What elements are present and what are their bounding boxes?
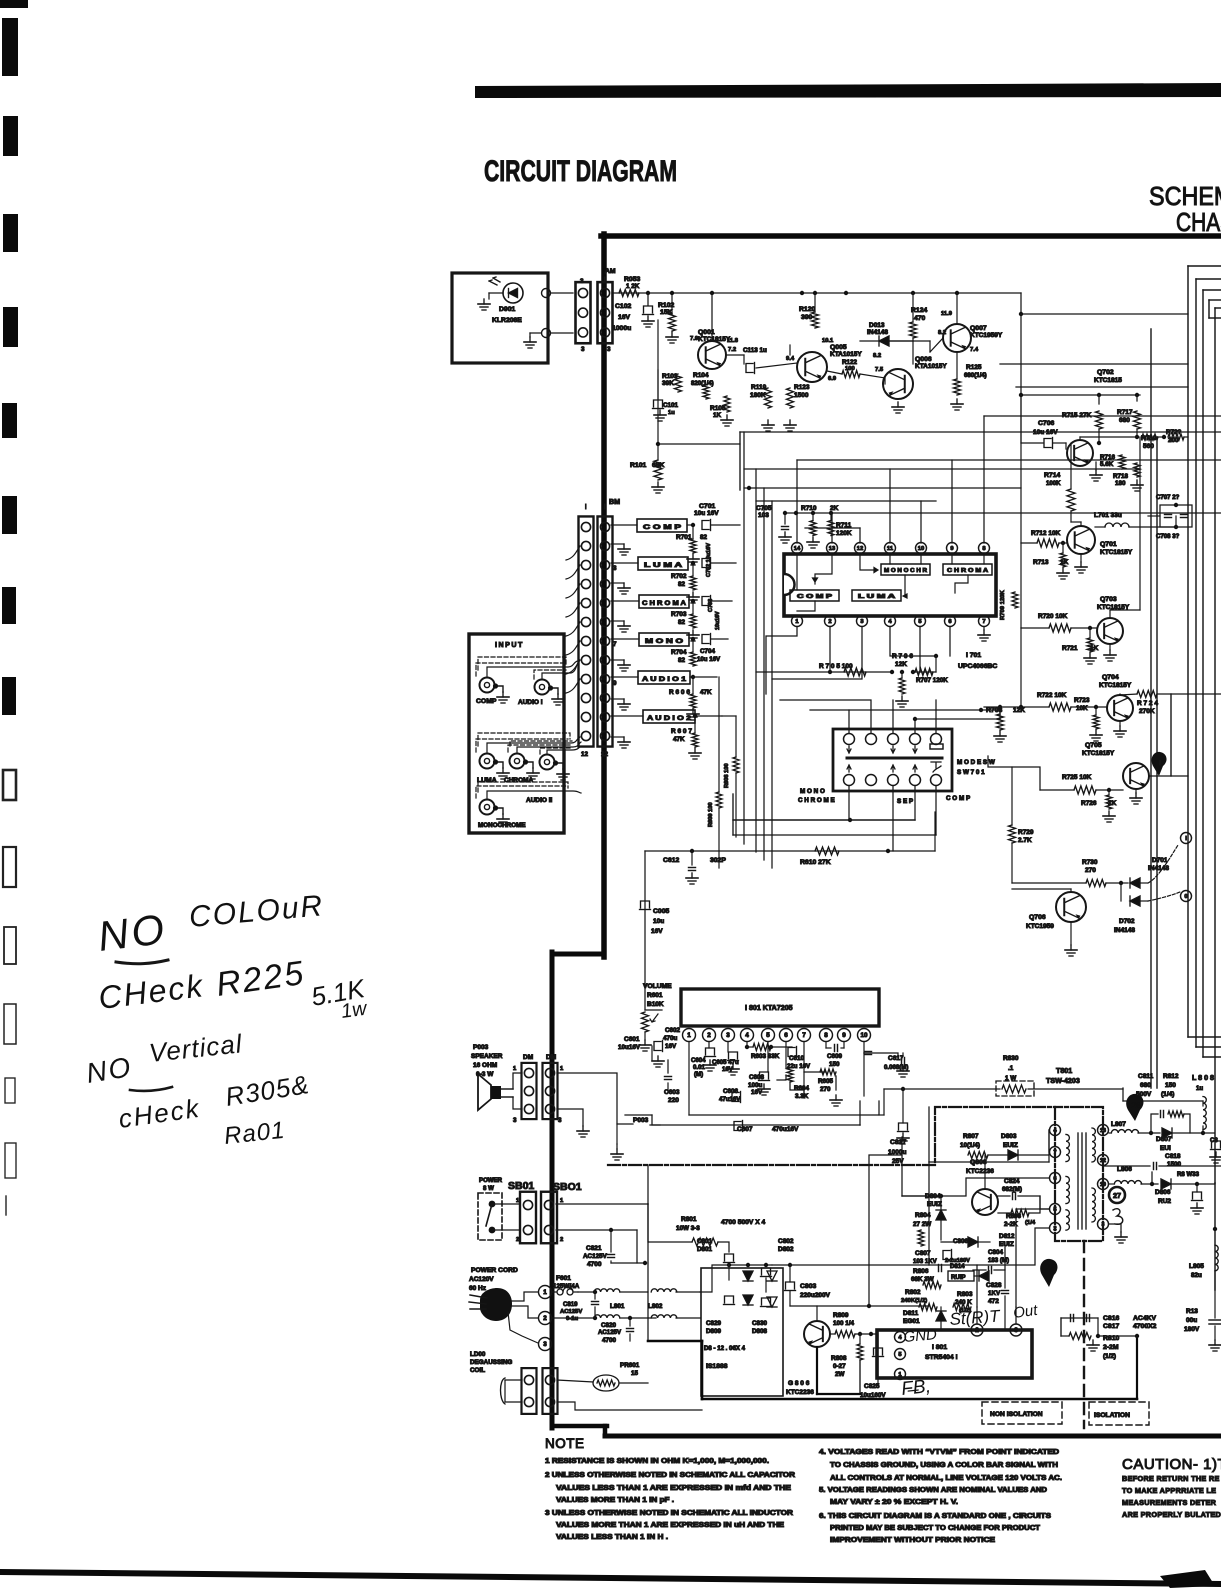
svg-text:TO MAKE APPRRIATE LE: TO MAKE APPRRIATE LE: [1122, 1486, 1216, 1495]
svg-text:KTC1815Y: KTC1815Y: [1099, 682, 1132, 689]
svg-text:C005: C005: [653, 908, 669, 915]
svg-text:S W 7 0 1: S W 7 0 1: [957, 769, 985, 776]
svg-text:C707 2?: C707 2?: [1156, 494, 1180, 501]
svg-text:R726: R726: [1081, 800, 1097, 807]
resistor R810 2.2M: [1069, 1333, 1091, 1340]
svg-text:R718: R718: [1113, 473, 1129, 480]
svg-text:EUIZ: EUIZ: [999, 1241, 1014, 1248]
switch capacitor contact: [930, 744, 943, 749]
ground Q703: [1109, 644, 1111, 650]
svg-text:DM: DM: [546, 1054, 556, 1061]
wire degauss return: [557, 1402, 702, 1410]
svg-text:C702 10u16V: C702 10u16V: [706, 543, 712, 577]
svg-text:3: 3: [726, 1032, 730, 1039]
svg-text:12: 12: [581, 751, 589, 758]
svg-text:6: 6: [948, 619, 952, 625]
svg-text:L U M A: L U M A: [644, 562, 682, 569]
svg-text:PRINTED MAY BE SUBJECT TO: PRINTED MAY BE SUBJECT TO CHANGE FOR PRO…: [830, 1525, 1041, 1532]
svg-text:C606: C606: [723, 1088, 739, 1095]
svg-text:8.2: 8.2: [938, 330, 946, 336]
svg-text:R123: R123: [794, 384, 810, 391]
svg-text:Q701: Q701: [1100, 541, 1117, 548]
svg-text:M O N O: M O N O: [645, 638, 683, 645]
schematic main frame border: [552, 234, 1221, 1436]
svg-text:R605: R605: [818, 1078, 834, 1085]
svg-text:KTC1815Y: KTC1815Y: [1082, 750, 1115, 757]
transistor Q007 KTC1959Y: [943, 324, 971, 352]
svg-text:R604: R604: [794, 1085, 810, 1092]
svg-text:10u 16V: 10u 16V: [694, 510, 719, 517]
svg-text:4700: 4700: [587, 1261, 602, 1268]
jack AUDIO2: [540, 755, 555, 770]
svg-text:9.4: 9.4: [786, 356, 795, 362]
svg-text:0-1u: 0-1u: [566, 1316, 579, 1322]
plug wires: [512, 1292, 538, 1301]
svg-text:C828: C828: [986, 1282, 1002, 1289]
svg-text:5: 5: [766, 1032, 770, 1039]
svg-text:7.9: 7.9: [690, 336, 699, 342]
svg-text:C801: C801: [697, 1238, 713, 1245]
svg-text:4: 4: [888, 619, 892, 625]
svg-text:KTA1015Y: KTA1015Y: [830, 351, 862, 358]
svg-text:3: 3: [580, 278, 584, 285]
svg-text:82u: 82u: [1191, 1272, 1202, 1279]
signal box COMP: [637, 519, 687, 532]
svg-text:C820: C820: [601, 1322, 617, 1329]
svg-text:10: 10: [918, 546, 924, 552]
switch arrows: [847, 746, 917, 772]
svg-text:3: 3: [558, 1117, 562, 1124]
wires SMPS verticals: [860, 1107, 1016, 1324]
svg-text:C704: C704: [700, 648, 716, 655]
svg-text:1500: 1500: [794, 392, 809, 399]
svg-text:C102: C102: [615, 303, 631, 310]
svg-text:CHeck: CHeck: [96, 967, 206, 1016]
svg-text:POWER CORD: POWER CORD: [471, 1267, 518, 1274]
svg-text:C607: C607: [737, 1126, 753, 1133]
audio grounds: [709, 1060, 711, 1065]
svg-text:COIL: COIL: [470, 1367, 485, 1374]
IC pin 13: [827, 543, 838, 554]
pin badge 1: [1152, 752, 1167, 776]
svg-text:R 6 0 6: R 6 0 6: [669, 689, 690, 696]
svg-text:D8 - 12 . 06X 4: D8 - 12 . 06X 4: [704, 1345, 746, 1352]
svg-text:C708 3?: C708 3?: [1156, 533, 1180, 540]
transistor Q702 circuit rails: [1000, 293, 1188, 404]
svg-text:L801: L801: [610, 1303, 625, 1310]
wires top amp interconnect: [890, 340, 913, 342]
svg-text:L U M A: L U M A: [858, 594, 895, 600]
svg-text:4: 4: [1053, 1128, 1057, 1134]
signal box LUMA: [638, 557, 688, 570]
svg-text:3: 3: [513, 1117, 517, 1124]
capacitor C005 10u 16V: [641, 901, 650, 908]
capacitor C102: [647, 293, 649, 305]
svg-text:12: 12: [1100, 1158, 1106, 1164]
svg-text:5. VOLTAGE READINGS SHOWN A: 5. VOLTAGE READINGS SHOWN ARE NOMINAL VA…: [819, 1487, 1047, 1494]
node circles on D901 box edge: [542, 289, 551, 298]
svg-text:(1/2): (1/2): [1103, 1353, 1116, 1360]
speaker wires to P003: [557, 1073, 633, 1124]
ground in D901 box: [483, 299, 485, 304]
svg-text:KTC2236: KTC2236: [786, 1389, 814, 1396]
svg-text:10(1/4): 10(1/4): [960, 1142, 980, 1149]
jack MONOCHROME: [480, 800, 495, 815]
IC I701 UPC4066BC box: [784, 554, 996, 616]
svg-text:R601: R601: [647, 992, 663, 999]
svg-text:|: |: [585, 504, 587, 510]
handwriting START OUT GND FB: [900, 1302, 1039, 1400]
wire routing below mode switch: [733, 794, 936, 851]
svg-text:R717: R717: [1117, 409, 1133, 416]
wire long rail y432: [740, 431, 1221, 433]
svg-text:.1: .1: [1008, 1065, 1014, 1072]
svg-text:C701: C701: [699, 503, 715, 510]
isolation labels: [982, 1402, 1062, 1424]
svg-text:COMP: COMP: [476, 698, 497, 705]
svg-text:R713: R713: [1033, 559, 1049, 566]
svg-text:C829: C829: [706, 1320, 722, 1327]
svg-text:VALUES MORE THAN 1 ARE EXPRE: VALUES MORE THAN 1 ARE EXPRESSED IN uH A…: [556, 1522, 784, 1529]
svg-text:1w: 1w: [340, 997, 370, 1023]
svg-text:12: 12: [601, 751, 609, 758]
svg-text:C H R O M A: C H R O M A: [642, 600, 686, 607]
speaker symbol: [478, 1074, 491, 1110]
svg-text:F601: F601: [556, 1275, 571, 1282]
capacitor C827 1000u 25V: [899, 1123, 908, 1130]
svg-text:R608 100: R608 100: [724, 763, 730, 788]
svg-text:L807: L807: [1111, 1121, 1126, 1128]
svg-text:R730: R730: [1082, 859, 1098, 866]
svg-text:I 801: I 801: [932, 1344, 947, 1351]
svg-text:220: 220: [668, 1097, 679, 1104]
ground upper mid: [659, 410, 661, 415]
transistor Q001 KTC1815Y: [698, 341, 726, 369]
svg-text:11: 11: [887, 546, 894, 552]
badge 26: [1126, 1094, 1143, 1121]
mode switch SW701 box: [833, 729, 952, 791]
svg-text:cHeck: cHeck: [117, 1093, 203, 1134]
wire Q703 collector: [1109, 610, 1111, 618]
IC pin 11: [885, 543, 896, 554]
svg-text:14: 14: [794, 546, 801, 552]
svg-text:C804: C804: [988, 1249, 1004, 1256]
signal box AUDIO1: [638, 671, 690, 684]
capacitor C704 10u16V: [702, 635, 709, 644]
svg-text:D807: D807: [1156, 1136, 1172, 1143]
IC pin 1: [792, 616, 803, 627]
svg-text:NO: NO: [84, 1051, 134, 1089]
coil L808 vertical: [1203, 1097, 1206, 1130]
transformer pins right: [1098, 1125, 1109, 1136]
power switch dashed box: [478, 1193, 502, 1240]
svg-text:NON ISOLATION: NON ISOLATION: [990, 1411, 1043, 1418]
svg-text:AC125V: AC125V: [598, 1329, 622, 1336]
svg-text:12K: 12K: [1013, 707, 1025, 714]
switch wiring top: [780, 700, 1000, 733]
svg-text:EUIZ: EUIZ: [927, 1201, 942, 1208]
switch bar: [847, 757, 942, 760]
wire SB01 pin1: [556, 1203, 648, 1205]
svg-text:R119: R119: [751, 384, 767, 391]
svg-text:2: 2: [707, 1032, 711, 1039]
svg-text:10W 3-3: 10W 3-3: [676, 1225, 700, 1232]
svg-text:82: 82: [678, 657, 686, 664]
svg-text:ALL CONTROLS AT NORMAL, LIN: ALL CONTROLS AT NORMAL, LINE VOLTAGE 120…: [830, 1475, 1062, 1482]
IC inner box MONOCHR: [881, 564, 930, 575]
svg-text:(1/4): (1/4): [1161, 1091, 1174, 1098]
svg-text:9: 9: [950, 546, 954, 552]
svg-text:C602: C602: [665, 1027, 681, 1034]
svg-text:L701 33u: L701 33u: [1094, 512, 1122, 519]
connector strip DM right: [543, 1063, 558, 1119]
svg-text:1: 1: [513, 1066, 517, 1072]
svg-text:ARE PROPERLY BULATED: ARE PROPERLY BULATED: [1122, 1510, 1221, 1519]
wire D901 to connector: [551, 292, 573, 294]
svg-text:F̶B,: F̶B,: [900, 1376, 932, 1400]
IC internal arrows: [797, 556, 984, 611]
svg-text:7: 7: [1053, 1150, 1056, 1156]
svg-text:470u: 470u: [663, 1035, 678, 1042]
svg-text:SPEAKER: SPEAKER: [471, 1053, 503, 1060]
svg-text:2: 2: [560, 1237, 563, 1243]
svg-text:D801: D801: [697, 1246, 713, 1253]
svg-text:4: 4: [745, 1032, 749, 1039]
signal box AUDIO2: [643, 710, 695, 723]
svg-text:R714: R714: [1044, 472, 1060, 479]
ground Q706: [1070, 922, 1072, 945]
svg-text:MAY VARY ± 20 % EXCEPT H.: MAY VARY ± 20 % EXCEPT H. V.: [830, 1499, 958, 1506]
svg-text:560: 560: [1143, 443, 1154, 450]
svg-text:5: 5: [898, 1352, 902, 1358]
svg-text:100u: 100u: [748, 1082, 763, 1089]
svg-text:6. THIS CIRCUIT DIAGRAM IS: 6. THIS CIRCUIT DIAGRAM IS A STANDARD ON…: [819, 1513, 1051, 1520]
svg-text:7.5: 7.5: [875, 367, 884, 373]
svg-text:2 UNLESS OTHERWISE NOTED I: 2 UNLESS OTHERWISE NOTED IN SCHEMATIC AL…: [545, 1472, 795, 1479]
svg-text:B10K: B10K: [647, 1001, 664, 1008]
wire Q701 collector up: [1071, 521, 1081, 523]
circled contact 0: [1181, 891, 1192, 902]
svg-text:D702: D702: [1119, 918, 1135, 925]
IC pin 8: [979, 543, 990, 554]
connector 3p AM (on frame): [598, 282, 613, 343]
svg-text:I 701: I 701: [966, 652, 981, 659]
svg-text:16V: 16V: [665, 1043, 677, 1050]
ground Q704: [1119, 721, 1121, 726]
wire AM pin1 rail: [612, 292, 648, 294]
svg-text:R802: R802: [905, 1289, 921, 1296]
degauss connector right: [543, 1368, 558, 1414]
shielded cable dashes: [476, 657, 572, 798]
jack CHROMA: [510, 754, 525, 769]
bottom page edge line: [0, 1569, 1221, 1587]
svg-text:13: 13: [829, 546, 836, 552]
photodiode D901: [503, 283, 523, 303]
svg-text:UPC4066BC: UPC4066BC: [958, 663, 997, 670]
svg-text:AC125V: AC125V: [560, 1309, 582, 1315]
wire Q705 feed: [988, 756, 1040, 790]
svg-text:470u16V: 470u16V: [772, 1126, 799, 1133]
svg-text:220u200V: 220u200V: [800, 1292, 831, 1299]
svg-text:Q006: Q006: [915, 356, 932, 363]
connector SB01 right: [541, 1192, 557, 1244]
svg-text:D808: D808: [752, 1328, 768, 1335]
svg-text:12: 12: [857, 546, 863, 552]
svg-text:VOLUME: VOLUME: [643, 983, 672, 990]
svg-text:D809: D809: [706, 1328, 722, 1335]
IC pin 7: [979, 616, 990, 627]
svg-text:C816: C816: [1103, 1315, 1119, 1322]
capacitor C803 220u200V: [786, 1282, 795, 1289]
svg-text:R807: R807: [963, 1133, 979, 1140]
svg-text:AM: AM: [605, 268, 616, 275]
svg-text:120K: 120K: [836, 530, 852, 537]
svg-text:KTC1959: KTC1959: [1026, 923, 1054, 930]
svg-text:KTC1815Y: KTC1815Y: [698, 336, 731, 343]
svg-text:8: 8: [824, 1032, 828, 1039]
svg-text:2: 2: [975, 1327, 979, 1334]
svg-text:AC120V: AC120V: [469, 1276, 494, 1283]
capacitor C825 10u160V: [874, 1348, 883, 1355]
svg-text:R723: R723: [1074, 697, 1090, 704]
svg-text:11.8: 11.8: [727, 338, 739, 344]
handwritten note NO COLOUR CHECK R225 5.1K 1w: [95, 889, 369, 1023]
connector strip DM left: [522, 1063, 537, 1119]
svg-text:IMPROVEMENT WITHOUT PRIOR N: IMPROVEMENT WITHOUT PRIOR NOTICE: [830, 1537, 995, 1544]
ground Q701 emitter: [1080, 554, 1082, 562]
svg-text:16V: 16V: [618, 314, 631, 321]
svg-text:R609 100: R609 100: [708, 802, 714, 827]
wires G806 region: [790, 1305, 929, 1307]
svg-text:2: 2: [1053, 1226, 1056, 1232]
svg-text:Q005: Q005: [830, 344, 847, 351]
svg-text:CHASSI: CHASSI: [1176, 207, 1221, 237]
capacitor C702 10u16V: [702, 559, 709, 568]
svg-text:D901: D901: [499, 306, 515, 313]
ground IC pin7: [983, 627, 985, 630]
IC pin 10: [916, 543, 927, 554]
svg-text:M O D E S W: M O D E S W: [957, 759, 995, 766]
svg-text:12K: 12K: [895, 661, 907, 668]
switch wiring bottom: [848, 786, 936, 851]
svg-text:10u: 10u: [653, 918, 664, 925]
svg-text:R804: R804: [915, 1212, 931, 1219]
svg-text:VALUES MORE THAN 1 IN pF: VALUES MORE THAN 1 IN pF .: [556, 1497, 674, 1504]
svg-text:BM: BM: [609, 498, 620, 506]
svg-text:BEFORE RETURN THE RE: BEFORE RETURN THE RE: [1122, 1474, 1220, 1483]
svg-text:8 W: 8 W: [483, 1185, 494, 1192]
svg-text:R703: R703: [671, 611, 687, 618]
svg-text:I 801 KTA7205: I 801 KTA7205: [745, 1004, 793, 1012]
svg-text:R13: R13: [1186, 1308, 1198, 1315]
svg-text:St(R)T: St(R)T: [949, 1306, 1002, 1329]
svg-text:6: 6: [784, 1032, 788, 1039]
bridge caps/diodes: [700, 1265, 772, 1292]
svg-text:KTA1015Y: KTA1015Y: [915, 363, 947, 370]
svg-text:3: 3: [860, 619, 864, 625]
svg-text:Out: Out: [1012, 1302, 1039, 1322]
svg-text:KTC1815: KTC1815: [1094, 377, 1122, 384]
svg-text:R808: R808: [831, 1355, 847, 1362]
output cap right: [1193, 1192, 1202, 1199]
svg-text:3.3K: 3.3K: [795, 1093, 809, 1100]
bold return wires: [648, 1204, 1137, 1399]
svg-text:Ra01: Ra01: [223, 1117, 287, 1150]
svg-text:R809: R809: [833, 1312, 849, 1319]
svg-text:IN4148: IN4148: [867, 329, 888, 336]
svg-text:C O M P: C O M P: [643, 524, 682, 531]
svg-text:1: 1: [795, 619, 799, 625]
jack LUMA: [480, 754, 495, 769]
svg-text:0: 0: [1184, 894, 1187, 900]
svg-text:1: 1: [687, 1032, 691, 1039]
ground DM: [582, 1126, 584, 1131]
STR pins 2 3: [971, 1324, 983, 1336]
svg-text:270: 270: [820, 1086, 831, 1093]
svg-text:680: 680: [1119, 417, 1130, 424]
svg-text:R 7 2 4: R 7 2 4: [1137, 700, 1158, 707]
svg-text:C604: C604: [691, 1057, 706, 1064]
svg-text:1: 1: [543, 1289, 547, 1296]
transistor Q705 KTC1815Y: [1123, 763, 1149, 789]
svg-text:6: 6: [1053, 1176, 1057, 1182]
svg-text:10.1: 10.1: [822, 338, 834, 344]
svg-text:TO CHASSIS GROUND, USING A: TO CHASSIS GROUND, USING A COLOR BAR SIG…: [830, 1462, 1058, 1469]
svg-text:5.6K: 5.6K: [1100, 461, 1114, 468]
svg-text:C706: C706: [1038, 420, 1054, 427]
svg-text:AUDIO I: AUDIO I: [518, 699, 543, 706]
svg-text:L802: L802: [648, 1303, 663, 1310]
svg-text:SB01: SB01: [508, 1180, 534, 1192]
wires strip to signal boxes: [611, 525, 643, 716]
svg-text:R720 10K: R720 10K: [1038, 613, 1068, 620]
svg-text:2: 2: [516, 1237, 519, 1243]
svg-text:D811: D811: [903, 1310, 919, 1317]
svg-text:DEGAUSSING: DEGAUSSING: [470, 1359, 512, 1366]
svg-text:10u16V: 10u16V: [618, 1044, 641, 1051]
svg-text:15: 15: [631, 1370, 639, 1377]
grounds at strip: [623, 544, 625, 549]
svg-text:150: 150: [829, 1061, 840, 1068]
capacitors C816 C817 AC4KV: [1061, 1317, 1098, 1319]
transistor Q703 KTC1815Y: [1097, 618, 1123, 644]
resistor R053: [619, 290, 639, 297]
svg-text:240K(1/2): 240K(1/2): [901, 1298, 927, 1304]
svg-text:7: 7: [613, 641, 617, 648]
svg-text:AC125V: AC125V: [583, 1253, 608, 1260]
svg-text:P003: P003: [473, 1044, 489, 1051]
svg-text:47K: 47K: [700, 689, 712, 696]
svg-text:DM: DM: [523, 1054, 533, 1061]
svg-text:INPUT: INPUT: [495, 641, 524, 649]
svg-text:472: 472: [988, 1298, 999, 1305]
svg-text:68K 3W: 68K 3W: [911, 1276, 934, 1283]
svg-text:2W: 2W: [835, 1371, 845, 1378]
IC I801 STR5404I box: [877, 1330, 1032, 1378]
svg-text:AC4KV: AC4KV: [1133, 1315, 1157, 1322]
svg-text:1KV: 1KV: [988, 1290, 1001, 1297]
svg-text:G 8 0 6: G 8 0 6: [788, 1380, 810, 1387]
svg-text:16V: 16V: [651, 928, 663, 935]
STR pins 4 5 1: [895, 1332, 906, 1343]
wire drop to R101: [657, 320, 659, 444]
svg-text:16 OHM: 16 OHM: [473, 1062, 497, 1069]
svg-text:KTC2236: KTC2236: [966, 1168, 994, 1175]
svg-text:RUIP: RUIP: [951, 1274, 966, 1281]
svg-text:3: 3: [1014, 1327, 1018, 1334]
svg-text:R711: R711: [836, 522, 852, 529]
circled plug pins 1 2 3: [539, 1286, 552, 1299]
